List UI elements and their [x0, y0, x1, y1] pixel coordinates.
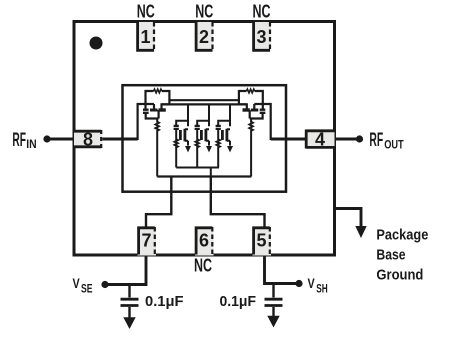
- cell 1 FET Q3: [180, 129, 191, 153]
- feedback resistor right: [239, 89, 263, 109]
- svg-text:NC: NC: [137, 1, 155, 21]
- ground C2: [267, 316, 279, 328]
- pin 6: [195, 227, 214, 256]
- wire pin 5 drop to Vsh node: [265, 254, 300, 284]
- svg-text:0.1μF: 0.1μF: [145, 294, 184, 310]
- svg-text:NC: NC: [195, 1, 213, 21]
- gate bias bus inner: [176, 167, 219, 169]
- wire pin 7 drop to Vse node: [105, 254, 146, 285]
- gate capacitor left: [143, 110, 159, 119]
- wire gate riser right: [254, 104, 270, 140]
- svg-text:0.1μF: 0.1μF: [220, 294, 257, 310]
- svg-text:6: 6: [199, 231, 209, 251]
- ground C1: [123, 317, 135, 329]
- source resistor left: [156, 119, 159, 177]
- capacitor C2: [265, 284, 283, 317]
- svg-text:8: 8: [83, 130, 93, 150]
- wire RFin to pin 8: [47, 138, 138, 141]
- NC label pin 2: [195, 1, 213, 21]
- FET Q1 left: [150, 104, 169, 119]
- svg-text:1: 1: [140, 27, 150, 47]
- wire gate riser left: [138, 104, 154, 140]
- svg-text:NC: NC: [194, 256, 212, 276]
- NC label pin 1: [137, 1, 155, 21]
- source resistor right: [249, 119, 252, 177]
- pin 4: [305, 130, 335, 150]
- svg-text:Ground: Ground: [376, 268, 423, 284]
- Vsh node dot: [295, 280, 302, 287]
- NC label pin 3: [253, 1, 271, 21]
- svg-text:RF: RF: [369, 130, 383, 151]
- wire pin 4 to RFout: [271, 138, 360, 141]
- package base ground stub: [335, 209, 362, 228]
- svg-text:SH: SH: [316, 284, 328, 296]
- wire die to pin 7: [146, 177, 171, 228]
- svg-text:Base: Base: [376, 248, 405, 264]
- Vsh label: [308, 276, 328, 296]
- cell 3 FET Q5: [222, 129, 233, 153]
- die outline: [123, 85, 287, 192]
- svg-text:3: 3: [256, 27, 266, 47]
- svg-text:OUT: OUT: [384, 138, 404, 152]
- svg-text:5: 5: [256, 231, 266, 251]
- RFout label: [369, 130, 404, 151]
- feedback resistor left: [146, 89, 170, 109]
- pin 2: [195, 22, 214, 51]
- drain bus lower: [162, 103, 247, 105]
- pin 3: [253, 22, 272, 51]
- cell 3 gate network: [216, 104, 230, 167]
- svg-text:2: 2: [199, 27, 209, 47]
- svg-text:7: 7: [141, 231, 151, 251]
- svg-text:RF: RF: [12, 130, 26, 151]
- Vse node dot: [101, 281, 108, 288]
- pin 1: [137, 22, 156, 51]
- NC label pin 6: [194, 256, 212, 276]
- package outline: [74, 22, 335, 256]
- svg-text:IN: IN: [26, 137, 36, 151]
- cell 2 FET Q4: [201, 129, 212, 153]
- bus link: [210, 168, 212, 177]
- Vse label: [73, 276, 93, 296]
- pin 1 index dot: [90, 37, 103, 50]
- pin 7: [138, 227, 157, 256]
- package base ground label: [376, 228, 428, 284]
- svg-text:NC: NC: [253, 1, 271, 21]
- RFin label: [12, 130, 36, 151]
- C2 value 0.1uF: [220, 294, 257, 310]
- RFout node dot: [356, 135, 363, 142]
- cell 1 gate network: [174, 104, 188, 167]
- svg-text:SE: SE: [81, 284, 93, 296]
- C1 value 0.1uF: [145, 294, 184, 310]
- svg-text:V: V: [73, 276, 80, 291]
- drain bus upper: [169, 99, 239, 101]
- svg-text:V: V: [308, 276, 315, 291]
- capacitor C1: [121, 285, 139, 319]
- FET Q2 right: [239, 104, 258, 119]
- pin 8: [74, 130, 103, 150]
- wire die to pin 5: [211, 177, 265, 228]
- RFin node dot: [43, 135, 50, 142]
- svg-text:Package: Package: [376, 228, 428, 244]
- svg-text:4: 4: [315, 130, 325, 150]
- package base ground arrow: [355, 226, 366, 238]
- source bus outer: [157, 175, 251, 177]
- pin 5: [253, 227, 272, 256]
- gate capacitor right: [250, 110, 266, 119]
- cell 2 gate network: [195, 104, 209, 167]
